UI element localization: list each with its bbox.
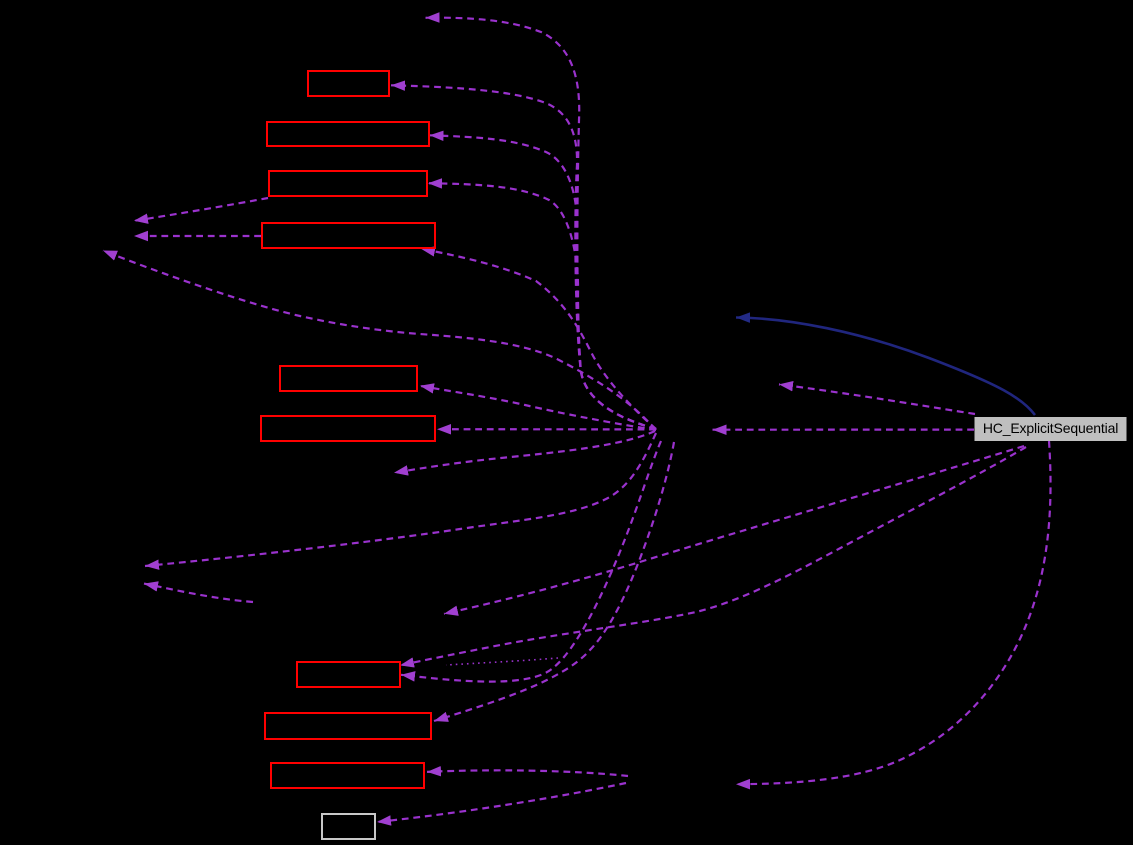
wire E7 hub to box5 [420, 386, 656, 430]
wire G2 short lower-left [144, 584, 253, 602]
wire dotted fragment near box7 [446, 658, 558, 665]
node box9 [271, 763, 424, 788]
wire D1 HC to mid-left arrow [444, 446, 1024, 614]
wire D2 HC to box7 upper [400, 447, 1026, 665]
wire N1 navy solid HC to upper node [736, 318, 1035, 416]
wire E8 hub to box6 [437, 428, 656, 430]
wire H2 to box10 [377, 783, 626, 822]
node box3 [269, 171, 427, 196]
wire E5 hub to box4 [421, 249, 656, 429]
node HC_ExplicitSequential [975, 417, 1127, 441]
wire E2 hub to box1 [391, 85, 656, 429]
node box4 [262, 223, 435, 248]
svg-text:HC_ExplicitSequential: HC_ExplicitSequential [983, 420, 1118, 436]
node box5 [280, 366, 417, 391]
wire G1 hub to lower-left arrow [145, 433, 656, 566]
wire E1 hub to top arrow [426, 18, 657, 429]
wire E4 hub to box3 [428, 183, 656, 429]
wire K1 box3 to left arrow [134, 198, 268, 221]
wire E3 hub to box2 [430, 135, 657, 429]
node box7 [297, 662, 400, 687]
node box2 [267, 122, 429, 146]
node box10 grey [322, 814, 375, 839]
wire K2 box4 to left arrow [134, 235, 261, 237]
wire E7b hub to mid-left arrow [394, 431, 655, 473]
node box6 [261, 416, 435, 441]
wire F1 HC to upper-left arrow [779, 384, 975, 414]
wire Sa hub down to box7 lower [401, 441, 661, 682]
wire F4 HC sweep down to bottom arrow [736, 441, 1051, 784]
node box1 [308, 71, 389, 96]
wire H1 to box9 [427, 770, 628, 776]
wire E6 hub to far left arrow [103, 251, 656, 431]
node box8 [265, 713, 431, 739]
wire F2 HC to hub [713, 429, 975, 431]
wire Sb hub down to box8 [434, 442, 674, 721]
